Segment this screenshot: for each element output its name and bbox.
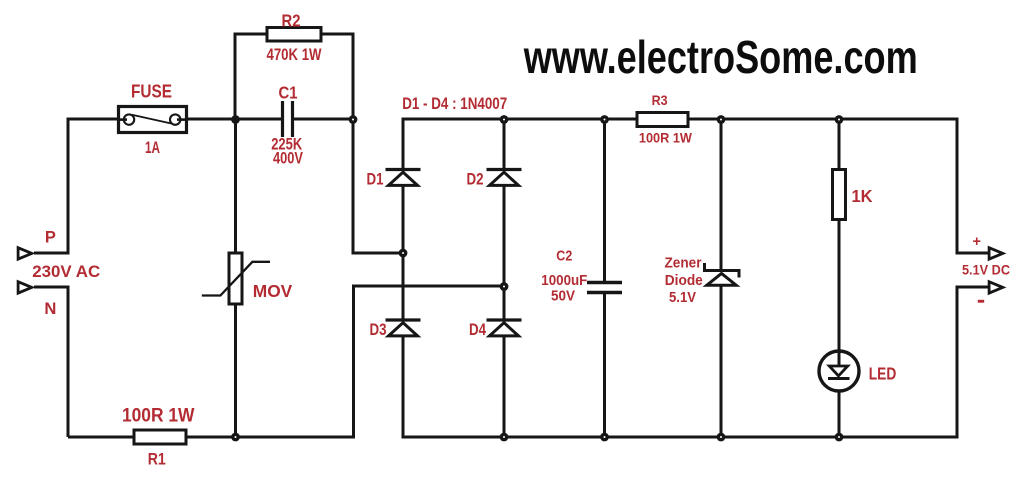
svg-text:5.1V DC: 5.1V DC xyxy=(962,263,1010,278)
svg-text:5.1V: 5.1V xyxy=(669,289,696,306)
svg-text:230V AC: 230V AC xyxy=(32,262,100,281)
svg-text:R1: R1 xyxy=(148,450,166,469)
svg-text:D4: D4 xyxy=(469,320,486,339)
svg-text:470K 1W: 470K 1W xyxy=(267,45,323,64)
svg-text:N: N xyxy=(44,300,56,318)
svg-text:50V: 50V xyxy=(551,288,575,305)
svg-text:D3: D3 xyxy=(370,320,387,339)
svg-text:1000uF: 1000uF xyxy=(541,272,587,289)
svg-text:Diode: Diode xyxy=(665,272,703,289)
svg-text:D1: D1 xyxy=(367,170,384,189)
svg-text:1K: 1K xyxy=(852,186,873,206)
svg-text:400V: 400V xyxy=(273,149,303,168)
svg-text:D1 - D4 : 1N4007: D1 - D4 : 1N4007 xyxy=(402,95,507,113)
svg-text:+: + xyxy=(972,234,980,250)
svg-text:R3: R3 xyxy=(652,92,668,108)
svg-text:C1: C1 xyxy=(279,83,298,103)
svg-text:R2: R2 xyxy=(282,11,301,31)
svg-text:1A: 1A xyxy=(145,138,160,157)
svg-text:C2: C2 xyxy=(556,248,572,265)
svg-text:LED: LED xyxy=(869,364,897,384)
svg-text:www.electroSome.com: www.electroSome.com xyxy=(523,31,918,83)
svg-text:100R 1W: 100R 1W xyxy=(122,406,195,427)
svg-text:100R 1W: 100R 1W xyxy=(639,130,693,146)
svg-text:MOV: MOV xyxy=(253,281,293,301)
svg-text:P: P xyxy=(45,229,56,247)
svg-text:D2: D2 xyxy=(467,170,484,189)
svg-text:FUSE: FUSE xyxy=(131,81,172,102)
svg-text:Zener: Zener xyxy=(665,255,702,272)
